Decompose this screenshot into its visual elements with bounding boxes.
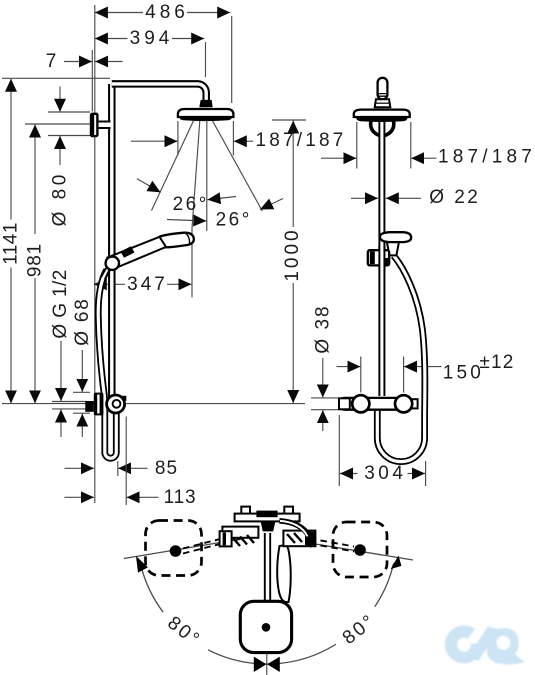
svg-text:150: 150 xyxy=(443,362,484,383)
bottom view: dashed square left xyxy=(146,521,202,576)
dimension 85 xyxy=(65,458,179,479)
dimension 26 degree left xyxy=(137,179,236,215)
dimension diameter 80 xyxy=(48,87,90,227)
bottom view: dashed square right xyxy=(333,522,387,577)
wire spray line to hand shower xyxy=(192,121,200,298)
dimension 150 plus minus 12 xyxy=(337,352,515,393)
hand shower holder knob xyxy=(101,257,119,280)
dimension diameter 68 xyxy=(72,297,93,437)
hand shower handle xyxy=(108,237,167,269)
bottom view: top tee bolts xyxy=(241,507,293,515)
svg-text:486: 486 xyxy=(145,2,189,23)
dimension 1000 xyxy=(272,120,306,403)
bottom view: dashed swivel arm right xyxy=(288,535,354,552)
svg-text:Ø G 1/2: Ø G 1/2 xyxy=(50,269,71,338)
bottom view: left handle block xyxy=(220,527,259,547)
svg-text:Ø 38: Ø 38 xyxy=(312,304,333,353)
wire wall face line for dim 7 xyxy=(91,50,93,112)
svg-text:Ø 22: Ø 22 xyxy=(429,187,480,208)
svg-text:±12: ±12 xyxy=(479,352,514,373)
arm stub right view xyxy=(375,78,391,108)
dimension 7 xyxy=(46,51,123,72)
thermostat right view xyxy=(339,395,418,412)
dimension 304 xyxy=(339,415,425,486)
bottom view: vertical centre line xyxy=(266,631,268,675)
wall plate stem to riser xyxy=(99,122,111,129)
wire spray cone right line xyxy=(213,121,263,211)
bottom view: dashed swivel arm left xyxy=(183,532,249,554)
bottom view: hand shower hanging outline xyxy=(277,545,291,602)
bottom view: shower centre dot xyxy=(262,623,271,632)
watermark logo letter C xyxy=(445,625,483,663)
wire spray cone left line xyxy=(152,121,194,211)
hose right view xyxy=(377,256,425,462)
dimension diameter 22 xyxy=(351,187,480,208)
dimension 981 xyxy=(25,124,91,403)
overhead shower head right view xyxy=(354,110,410,122)
bottom view: spout curve xyxy=(279,521,310,547)
svg-text:7: 7 xyxy=(46,51,57,72)
wire shower head axis line xyxy=(206,121,208,231)
watermark logo diagonal stroke xyxy=(468,626,500,660)
wire wall reference line vertical left view xyxy=(94,5,96,503)
bottom view: arc arrow left xyxy=(136,556,148,573)
svg-text:394: 394 xyxy=(130,28,174,49)
bottom view: right arm union xyxy=(283,531,315,547)
svg-text:Ø 80: Ø 80 xyxy=(50,171,71,226)
dimension 187/187 left view xyxy=(131,121,347,156)
riser pipe left view xyxy=(108,84,116,397)
wire thermostat centre reference line xyxy=(2,403,305,405)
overhead shower head left view xyxy=(178,109,234,121)
svg-text:85: 85 xyxy=(155,458,178,479)
bottom view: pivot dot right xyxy=(354,544,366,556)
svg-text:113: 113 xyxy=(164,487,197,508)
bottom view: pivot block xyxy=(261,521,276,531)
svg-text:187/187: 187/187 xyxy=(255,130,346,151)
dimension diameter 38 xyxy=(311,304,338,431)
bottom view: arc arrow right xyxy=(391,556,402,570)
swivel joint circle right view xyxy=(371,112,394,135)
svg-text:187/187: 187/187 xyxy=(438,146,535,167)
riser pipe right view xyxy=(378,117,385,396)
wire top reference line of riser arm xyxy=(2,77,110,79)
bottom view: riser axis double line xyxy=(265,533,270,624)
svg-text:26°: 26° xyxy=(173,194,209,215)
dimension 347 xyxy=(94,274,192,295)
bottom view: 80 degree arc left xyxy=(141,563,394,664)
bottom view: closed valve bowtie symbol xyxy=(254,657,280,672)
svg-text:1141: 1141 xyxy=(1,222,22,265)
bottom view: pivot dot left xyxy=(170,545,182,557)
bottom view: arm axis line right xyxy=(297,541,413,560)
watermark logo letter D xyxy=(487,628,525,665)
dimension 26 degree right xyxy=(167,199,283,231)
svg-text:26°: 26° xyxy=(216,210,252,231)
dimension 394 xyxy=(95,28,206,77)
dimension G 1/2 xyxy=(50,269,86,437)
hose left view xyxy=(98,270,116,458)
wall plate escutcheon xyxy=(90,113,99,138)
shower arm left view xyxy=(112,84,206,100)
soap dish holder right view xyxy=(368,232,411,270)
hand shower head left view xyxy=(159,233,194,248)
svg-text:304: 304 xyxy=(364,463,406,484)
thermostat left view xyxy=(85,393,126,416)
dimension 187/187 right view xyxy=(321,122,535,169)
svg-text:347: 347 xyxy=(127,274,168,295)
svg-text:Ø 68: Ø 68 xyxy=(72,297,93,345)
bottom view: arm axis line left xyxy=(124,540,235,559)
svg-text:1000: 1000 xyxy=(282,227,303,281)
bottom view: wall bar xyxy=(235,511,300,522)
dimension 113 xyxy=(65,417,197,508)
arm connector to overhead shower xyxy=(199,100,212,107)
dimension 1141 xyxy=(1,79,22,404)
dimension 486 xyxy=(95,2,232,103)
svg-text:981: 981 xyxy=(25,243,46,277)
bottom view: overhead shower square outline xyxy=(240,601,291,652)
